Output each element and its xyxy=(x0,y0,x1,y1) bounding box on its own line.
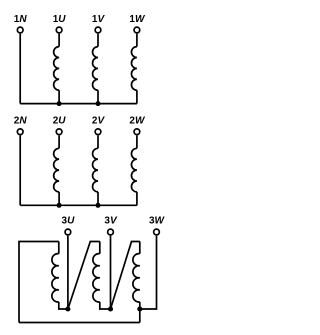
svg-text:1W: 1W xyxy=(129,14,146,25)
wire terminal 3W drop to node W xyxy=(140,236,157,309)
wire diagonal node 3V to coil L3W top xyxy=(111,242,140,310)
wire coil L3U bottom to node 3U xyxy=(59,302,68,309)
svg-text:3U: 3U xyxy=(62,216,76,227)
terminal 1N xyxy=(17,27,23,33)
wire diagonal node 3U to coil L3V top xyxy=(68,242,100,310)
junction node 3U xyxy=(65,306,70,311)
wire 1N to neutral bus xyxy=(19,34,21,104)
terminal 2W xyxy=(134,129,140,135)
terminal 1W xyxy=(134,27,140,33)
svg-text:2W: 2W xyxy=(129,116,146,127)
svg-text:3V: 3V xyxy=(104,216,118,227)
winding coil L2V xyxy=(97,135,99,148)
svg-text:2V: 2V xyxy=(92,116,106,127)
wire 2N to neutral bus xyxy=(19,135,21,205)
wire terminal 3U drop xyxy=(67,236,69,309)
svg-text:3W: 3W xyxy=(149,216,166,227)
winding coil L3W xyxy=(139,242,141,254)
bottom bus wire (delta return) xyxy=(19,322,140,324)
winding coil L1V xyxy=(97,34,99,47)
terminal 2N xyxy=(17,129,23,135)
svg-text:2U: 2U xyxy=(53,116,67,127)
winding coil L3U xyxy=(58,242,60,254)
wire left return: bus up left edge to coil L3U top xyxy=(19,242,59,323)
svg-text:1N: 1N xyxy=(14,14,28,25)
junction node 3V xyxy=(108,306,113,311)
neutral bus wire 2 xyxy=(20,204,137,206)
terminal 2V xyxy=(95,129,101,135)
terminal 3V xyxy=(108,229,114,235)
junction node 2U-bus xyxy=(57,203,62,208)
wire coil L3W bottom through node W to bottom bus xyxy=(139,302,141,323)
terminal 3U xyxy=(65,229,71,235)
wire terminal 3V drop xyxy=(110,236,112,309)
terminal 3W xyxy=(154,229,160,235)
junction node 1V-bus xyxy=(96,101,101,106)
winding coil L3V xyxy=(99,242,101,254)
winding coil L2U xyxy=(58,135,60,148)
junction node 1U-bus xyxy=(57,101,62,106)
wire coil L3V bottom to node 3V xyxy=(100,302,111,309)
junction node 2V-bus xyxy=(96,203,101,208)
junction node 3W xyxy=(137,306,142,311)
svg-text:1V: 1V xyxy=(92,14,106,25)
svg-text:2N: 2N xyxy=(14,116,28,127)
neutral bus wire 1 xyxy=(20,103,137,105)
winding coil L2W xyxy=(136,135,138,148)
terminal 2U xyxy=(56,129,62,135)
winding coil L1U xyxy=(58,34,60,47)
svg-text:1U: 1U xyxy=(53,14,67,25)
terminal 1U xyxy=(56,27,62,33)
transformer winding connection schematic xyxy=(0,0,173,335)
terminal 1V xyxy=(95,27,101,33)
winding coil L1W xyxy=(136,34,138,47)
